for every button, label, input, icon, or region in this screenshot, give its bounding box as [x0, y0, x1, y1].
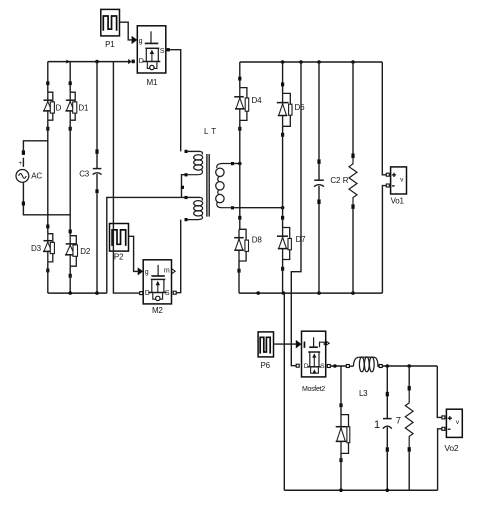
- pin D1 top: [69, 81, 72, 85]
- node S junction: [333, 364, 337, 368]
- node secondary top junction: [238, 162, 242, 166]
- wire secondary top to bridge: [234, 163, 240, 165]
- pin Mosfet2 D: [296, 364, 299, 367]
- node C3 top rail junction: [95, 60, 99, 64]
- svg-text:D8: D8: [252, 236, 263, 245]
- wire P2 to M2 gate: [129, 236, 138, 271]
- wire M1 S to winding1 top: [170, 50, 181, 152]
- svg-text:C3: C3: [79, 169, 90, 178]
- svg-text:D4: D4: [252, 96, 263, 105]
- wire D1 column: [69, 62, 71, 82]
- mosfet Mosfet2: [302, 331, 326, 393]
- wire D column lower: [47, 120, 49, 224]
- node cap bottom junction: [386, 488, 390, 492]
- node output res junction: [407, 364, 411, 368]
- pin D7 top: [281, 216, 284, 220]
- wire arrow + pin into M1 D port: [128, 59, 131, 64]
- wire arrow on rail before D1: [66, 60, 70, 64]
- wire L3 to output: [382, 365, 437, 367]
- svg-text:M2: M2: [152, 306, 163, 315]
- pin D4 bottom: [238, 127, 241, 131]
- pin M2 D: [140, 292, 143, 295]
- svg-text:m: m: [164, 268, 170, 275]
- svg-text:R: R: [343, 176, 349, 185]
- pin D8 bottom: [237, 269, 240, 273]
- pin D3 top: [46, 225, 49, 229]
- svg-text:+: +: [18, 160, 22, 167]
- pin M1 S: [167, 48, 170, 51]
- wire Vo2 minus feed: [438, 429, 442, 490]
- node C2 top junction: [317, 60, 321, 64]
- node D2 bottom junction: [68, 291, 72, 295]
- wire P6 to Mosfet2 gate: [274, 343, 297, 345]
- wire Mosfet2 S to L3: [330, 365, 346, 367]
- wire buck bottom rail: [284, 489, 437, 491]
- node R top junction: [351, 60, 355, 64]
- pin L3 right: [379, 365, 382, 368]
- svg-text:C2: C2: [330, 176, 341, 185]
- node C3 bottom junction: [95, 291, 99, 295]
- pin D6 top: [281, 83, 284, 87]
- wire freewheel diode column: [340, 366, 342, 403]
- pin L3 left: [346, 365, 349, 368]
- pulse generator P1: [101, 9, 120, 49]
- diode D7 glyph: [277, 228, 291, 260]
- wire rail feed to M2 D: [113, 62, 139, 294]
- diode D4 glyph: [234, 88, 249, 121]
- wire output cap column: [386, 366, 388, 392]
- wire bottom rail right: [239, 292, 382, 294]
- wire bottom rail left: [48, 292, 107, 294]
- voltage measurement Vo1: [391, 167, 407, 205]
- svg-text:AC: AC: [31, 171, 42, 180]
- diode Dfw glyph: [336, 415, 350, 454]
- wire top rail left: [48, 61, 129, 63]
- svg-text:S: S: [160, 48, 165, 55]
- wire Vo2 plus feed: [437, 366, 442, 417]
- transformer core: [206, 154, 208, 217]
- resistor 7: [396, 386, 413, 452]
- svg-text:1: 1: [374, 419, 380, 431]
- node output cap junction: [386, 364, 390, 368]
- wire Vo1 plus feed: [382, 62, 386, 175]
- pin M2 S: [173, 291, 176, 294]
- svg-text:D6: D6: [295, 103, 306, 112]
- diode D3 glyph: [43, 234, 54, 262]
- pin D8 top: [238, 216, 241, 220]
- wire bridge return to buck rail: [283, 293, 286, 490]
- svg-text:L3: L3: [359, 389, 368, 398]
- wire bridge feed to Mosfet2: [291, 62, 301, 366]
- pin D2 top: [69, 230, 72, 234]
- capacitor 1: [374, 392, 392, 452]
- pin D2 bottom: [69, 274, 72, 278]
- pin D7 bottom: [281, 267, 284, 271]
- svg-text:D3: D3: [31, 244, 42, 253]
- wire Vo1 minus feed: [382, 186, 386, 294]
- pin D6 bottom: [281, 133, 284, 137]
- pulse generator P2: [110, 224, 129, 262]
- pin M2 m port nub: [172, 269, 175, 274]
- pin D4 top: [238, 77, 241, 81]
- wire D1 to D2: [69, 120, 71, 229]
- node feed junction: [299, 60, 303, 64]
- pulse generator P6: [258, 332, 273, 370]
- svg-text:P2: P2: [114, 252, 124, 261]
- diode D2 glyph: [65, 236, 78, 267]
- svg-text:P6: P6: [261, 361, 271, 370]
- wire secondary bottom to bridge: [234, 207, 283, 209]
- wire center-tap riser: [107, 197, 185, 293]
- diode D8 glyph: [234, 229, 248, 261]
- capacitor C3: [79, 149, 101, 193]
- diode D6 glyph: [277, 93, 292, 126]
- resistor R: [343, 154, 357, 209]
- wire output res column: [408, 366, 410, 386]
- pin Mosfet2 m nub: [326, 341, 329, 345]
- wire C2 column top: [318, 62, 320, 159]
- node D7 return junction: [282, 291, 286, 295]
- svg-text:Vo1: Vo1: [391, 196, 405, 205]
- wire D column: [47, 62, 49, 82]
- diode D1 glyph: [65, 92, 76, 120]
- svg-text:T: T: [211, 127, 216, 136]
- wire D4 column: [239, 62, 241, 77]
- svg-text:g: g: [139, 38, 143, 45]
- wire arrowhead into Mosfet2 g: [296, 340, 302, 349]
- node freewheel bottom junction: [339, 488, 343, 492]
- capacitor C2: [314, 159, 341, 204]
- diode D glyph: [43, 92, 54, 120]
- node D6 top junction: [281, 60, 285, 64]
- pin Mosfet2 S: [327, 365, 330, 368]
- wire AC minus to D2 leg: [23, 206, 70, 215]
- pin D bottom: [46, 127, 49, 131]
- transformer secondary winding: [216, 162, 234, 209]
- pin D3 bottom: [46, 269, 49, 273]
- node secondary bottom junction: [281, 206, 285, 210]
- wire AC plus to D leg: [23, 141, 47, 151]
- AC source: [16, 150, 42, 205]
- pin freewheel bottom: [339, 458, 342, 462]
- wire D6 column: [282, 62, 284, 83]
- wire top rail right: [240, 61, 382, 63]
- svg-text:Mosfet2: Mosfet2: [302, 386, 325, 393]
- mosfet M2: [143, 260, 171, 315]
- transformer winding1 primary top: [185, 150, 203, 177]
- wire arrowhead into M1 g: [132, 36, 138, 44]
- wire M2 S to winding2 bottom: [176, 220, 181, 293]
- svg-text:S: S: [165, 290, 170, 297]
- svg-text:Vo2: Vo2: [444, 443, 459, 453]
- pin center tap mark: [181, 186, 184, 189]
- wire C3 column top: [96, 62, 98, 150]
- pin freewheel top: [339, 403, 342, 407]
- mosfet M1: [137, 26, 166, 87]
- svg-text:D1: D1: [78, 103, 89, 112]
- inductor L3: [349, 357, 382, 398]
- wire C3 column bottom: [96, 193, 98, 293]
- svg-text:P1: P1: [105, 40, 115, 49]
- svg-text:M1: M1: [147, 78, 158, 87]
- node R bottom junction: [351, 291, 355, 295]
- svg-text:D: D: [145, 290, 150, 297]
- wire arrowhead into M2 g: [138, 267, 144, 275]
- pin D1 bottom: [69, 127, 72, 131]
- node mystery junction: [256, 291, 260, 295]
- svg-text:D2: D2: [80, 247, 91, 256]
- node C2 bottom junction: [317, 291, 321, 295]
- svg-text:7: 7: [396, 416, 401, 427]
- transformer winding2 primary bottom: [185, 196, 203, 221]
- voltage measurement Vo2: [444, 409, 462, 453]
- svg-text:D: D: [56, 104, 62, 113]
- pin D top: [46, 81, 49, 85]
- svg-text:g: g: [145, 269, 149, 276]
- wire R column top: [352, 62, 354, 154]
- wire winding1 bottom to center tap: [182, 175, 186, 198]
- wire P1 to M1 gate: [120, 22, 132, 40]
